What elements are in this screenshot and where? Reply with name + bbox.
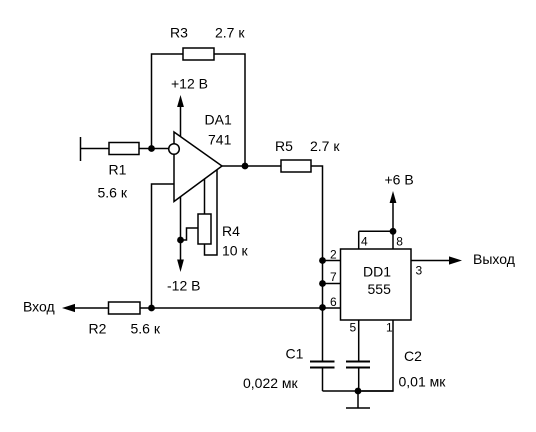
resistor R2 xyxy=(109,302,141,314)
capacitor C1 plates xyxy=(310,361,335,363)
wire R4 bottom loop xyxy=(205,170,218,256)
wire pin8 stub xyxy=(392,231,394,249)
svg-text:741: 741 xyxy=(208,132,232,148)
svg-text:+12 В: +12 В xyxy=(171,76,208,92)
svg-text:DA1: DA1 xyxy=(205,112,232,128)
wire ground rail xyxy=(323,390,394,392)
wire R3 loop right xyxy=(214,54,245,166)
node -12V junction xyxy=(177,237,184,244)
svg-text:0,022 мк: 0,022 мк xyxy=(243,375,299,391)
wire pin1 to ground rail xyxy=(361,320,393,391)
svg-text:R2: R2 xyxy=(89,321,107,337)
arrow -12V xyxy=(177,260,184,273)
wire non-inverting input xyxy=(152,184,175,308)
svg-text:2: 2 xyxy=(330,248,337,262)
wire R4 top xyxy=(204,179,206,215)
svg-text:7: 7 xyxy=(330,270,337,284)
op-amp DA1 triangle xyxy=(174,132,222,202)
svg-text:R5: R5 xyxy=(275,138,293,154)
resistor R4 xyxy=(198,214,211,244)
wire C2 to rail xyxy=(358,369,360,392)
svg-text:555: 555 xyxy=(368,281,392,297)
wire pin3 output xyxy=(411,260,450,262)
node pin7 xyxy=(319,280,326,287)
svg-text:+6 В: +6 В xyxy=(385,172,414,188)
wire +6V supply xyxy=(392,196,394,231)
wire -12V stem xyxy=(180,240,182,260)
wire R1 to inverting input xyxy=(139,148,169,150)
wire pin4 stub xyxy=(358,231,360,249)
wire C1 to rail xyxy=(322,369,324,392)
wire R5 to 555 bus xyxy=(311,166,323,308)
svg-text:C2: C2 xyxy=(404,348,422,364)
svg-text:6: 6 xyxy=(330,295,337,309)
svg-text:DD1: DD1 xyxy=(363,264,391,280)
svg-text:0,01 мк: 0,01 мк xyxy=(399,374,447,390)
wire pin6 node to C1 xyxy=(322,308,324,361)
svg-text:1: 1 xyxy=(386,321,393,335)
resistor R1 xyxy=(109,143,139,155)
node output junction xyxy=(242,163,249,170)
node pin2 xyxy=(319,257,326,264)
ground xyxy=(346,391,370,408)
node pin6 junction xyxy=(319,304,326,311)
svg-text:10 к: 10 к xyxy=(222,243,248,259)
arrow +6V xyxy=(390,191,397,203)
svg-text:C1: C1 xyxy=(286,346,304,362)
wire terminal to R1 xyxy=(81,148,110,150)
wire pin2 xyxy=(323,260,341,262)
svg-text:Выход: Выход xyxy=(473,251,515,267)
wire bottom row to pin6 xyxy=(140,307,341,309)
arrow Vyhod xyxy=(449,256,462,264)
svg-text:R1: R1 xyxy=(109,162,127,178)
wire -12V from op-amp xyxy=(180,197,182,240)
inverting input bubble xyxy=(169,144,180,155)
wire pin5 xyxy=(358,320,360,361)
svg-text:2.7 к: 2.7 к xyxy=(310,138,340,154)
terminal input T-bar xyxy=(80,137,82,161)
wire Vhod to R2 xyxy=(72,307,109,309)
wire op-amp output xyxy=(222,165,281,167)
svg-text:3: 3 xyxy=(416,264,423,278)
svg-text:Вход: Вход xyxy=(23,299,55,315)
wire R3 loop left xyxy=(152,54,184,149)
node pin8 +6V junction xyxy=(390,228,397,235)
node non-inverting junction xyxy=(148,305,155,312)
wire +12V supply xyxy=(180,99,182,137)
resistor R3 xyxy=(183,48,214,60)
capacitor C2 plates xyxy=(346,361,370,363)
resistor R5 xyxy=(281,160,311,172)
arrow +12V xyxy=(177,95,184,107)
wire pin4-pin8 link xyxy=(359,230,393,232)
node inverting input junction xyxy=(148,145,155,152)
svg-text:8: 8 xyxy=(396,235,403,249)
svg-text:4: 4 xyxy=(361,235,368,249)
svg-text:5.6 к: 5.6 к xyxy=(98,185,128,201)
wire R4 wiper to -12V xyxy=(181,228,199,240)
svg-text:-12 В: -12 В xyxy=(167,278,200,294)
IC DD1 555 box xyxy=(341,249,412,320)
svg-text:5.6 к: 5.6 к xyxy=(131,321,161,337)
svg-text:R3: R3 xyxy=(170,25,188,41)
node ground rail xyxy=(355,388,362,395)
wire pin7 xyxy=(323,283,341,285)
svg-text:2.7 к: 2.7 к xyxy=(215,25,245,41)
svg-text:R4: R4 xyxy=(222,223,240,239)
svg-text:5: 5 xyxy=(350,321,357,335)
arrow Vhod xyxy=(62,304,75,312)
